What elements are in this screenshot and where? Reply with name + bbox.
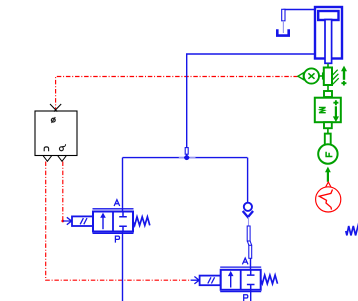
tank T1 (open reservoir) (277, 29, 288, 35)
stub rod to pickup (327, 64, 329, 68)
controller glyph n (44, 147, 48, 151)
valve V2 port label P (244, 295, 248, 301)
wire: light line below check valve (248, 217, 250, 226)
valve V2 flow arrow (230, 275, 232, 287)
force sensor glyph F (rotated) (325, 152, 332, 157)
wire: left valve port P down to edge (122, 232, 124, 301)
displacement pickup body (324, 64, 347, 97)
valve V1 flow arrow (102, 217, 104, 229)
check valve V3 (243, 203, 253, 217)
spring of off-canvas component at right edge (346, 226, 358, 235)
controller U1 (PID controller box) (35, 104, 77, 161)
signal arrow (red open triangle) (325, 182, 331, 188)
setpoint block glyph w (rotated) (319, 107, 326, 112)
controller glyph phi (setpoint) (51, 117, 55, 123)
valve V2 body (221, 270, 261, 290)
wire: red control line from controller out2 down to left valve solenoid (62, 162, 64, 221)
node: red line end dot at left valve solenoid (61, 220, 64, 223)
wire: hollow double-line segment above junction (185, 148, 188, 155)
cylinder C1 piston rod (325, 20, 332, 64)
valve V1 port label P (115, 236, 119, 243)
valve V1 blocked ports (119, 212, 127, 217)
signal generator G1 (red circle with waveform) (316, 187, 341, 212)
force direction arrow (green, up) (327, 172, 329, 182)
wire: hollow double-line segment below corner (282, 9, 285, 20)
wire: hydraulic line cylinder bottom port to junction (187, 54, 315, 158)
wire: hydraulic line cylinder top port to tank (283, 9, 315, 11)
cylinder C1 (hydraulic cylinder) (315, 7, 342, 63)
valve V2 port label A (242, 258, 248, 264)
wire: thin light line into tank (282, 21, 284, 33)
position sensor B1 (circle x) (298, 68, 323, 83)
valve V1 proportional solenoid (72, 216, 93, 226)
mounting hatch (333, 70, 339, 85)
valve V1 body (93, 212, 133, 232)
valve V1 spring (133, 217, 150, 226)
valve V1 (proportional 2/2 way valve, left) (63, 209, 150, 234)
stub pickup to connector (327, 85, 329, 91)
valve V2 proportional lines (220, 267, 261, 292)
cylinder C1 piston (318, 11, 338, 20)
wire: right valve port P down to edge (250, 290, 252, 301)
valve V2 (proportional 2/2 way valve, right) (191, 267, 278, 292)
valve V1 proportional lines (93, 209, 134, 234)
wire: horizontal manifold line between valves (123, 157, 248, 159)
valve V2 spring (261, 275, 278, 284)
wire: light segments beside junction (179, 157, 184, 159)
valve V2 control arrow (191, 277, 200, 284)
direction arrow up with plus (343, 71, 345, 80)
node: junction dot (184, 155, 189, 160)
valve V1 port label A (114, 200, 120, 206)
valve V1 control arrow (63, 217, 72, 224)
wire: manifold down to check valve (247, 158, 249, 203)
valve V2 proportional solenoid (200, 276, 221, 286)
wire: red control line from sensor X to controller box top (56, 77, 298, 111)
force sensor B2 (circle F) (318, 144, 337, 163)
controller glyph sigma prime (59, 144, 65, 151)
setpoint block (square w, down arrow) (315, 98, 341, 145)
wire: red control line from controller out1 down and right to right valve solenoid (46, 162, 191, 281)
wire: manifold down to left valve port A (122, 158, 124, 212)
valve V2 blocked ports (247, 270, 255, 275)
wire: hollow double-line with jog to right valve port A (247, 226, 250, 241)
